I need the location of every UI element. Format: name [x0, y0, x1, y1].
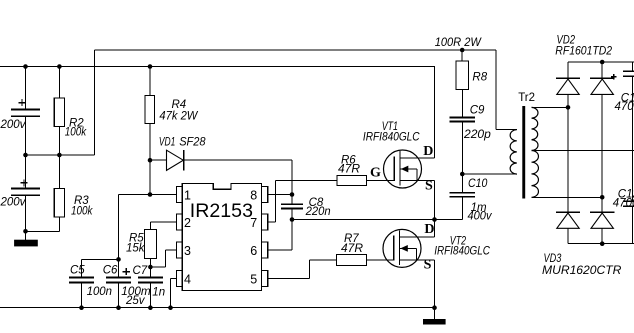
svg-text:VD1: VD1	[159, 137, 176, 149]
svg-text:S: S	[425, 178, 433, 193]
svg-text:C10: C10	[468, 178, 488, 190]
svg-text:200v: 200v	[0, 119, 27, 131]
svg-text:4700: 4700	[613, 198, 634, 210]
svg-text:R8: R8	[472, 71, 487, 83]
svg-text:MUR1620CTR: MUR1620CTR	[542, 265, 621, 277]
svg-text:2: 2	[184, 216, 191, 230]
svg-text:400v: 400v	[468, 211, 493, 223]
svg-text:3: 3	[184, 244, 191, 258]
svg-text:1: 1	[184, 189, 191, 203]
svg-text:IRFI840GLC: IRFI840GLC	[434, 246, 490, 258]
svg-text:R4: R4	[172, 99, 187, 111]
svg-text:IRFI840GLC: IRFI840GLC	[363, 132, 420, 144]
svg-text:D: D	[423, 144, 433, 159]
svg-text:15k: 15k	[126, 243, 146, 255]
svg-text:6: 6	[250, 244, 257, 258]
svg-text:C7: C7	[133, 265, 148, 277]
svg-text:5: 5	[250, 273, 257, 287]
svg-text:200v: 200v	[0, 197, 27, 209]
svg-text:C6: C6	[103, 264, 118, 276]
svg-text:47k 2W: 47k 2W	[159, 111, 198, 123]
svg-text:C9: C9	[470, 104, 485, 116]
svg-text:1n: 1n	[152, 286, 165, 298]
svg-text:Tr2: Tr2	[518, 92, 535, 104]
svg-text:100k: 100k	[65, 127, 87, 139]
svg-text:25v: 25v	[125, 295, 146, 307]
svg-text:47R: 47R	[341, 243, 363, 255]
svg-text:C5: C5	[70, 264, 85, 276]
svg-text:100k: 100k	[71, 206, 93, 218]
svg-text:100n: 100n	[87, 286, 112, 298]
svg-text:SF28: SF28	[179, 137, 206, 149]
svg-text:VD3: VD3	[544, 253, 562, 265]
svg-text:4: 4	[184, 273, 191, 287]
svg-text:G: G	[370, 166, 381, 181]
svg-text:IR2153: IR2153	[190, 201, 253, 222]
svg-text:100R 2W: 100R 2W	[435, 37, 482, 49]
svg-text:8: 8	[250, 189, 257, 203]
svg-text:S: S	[424, 257, 432, 272]
svg-text:7: 7	[250, 216, 257, 230]
svg-text:220n: 220n	[305, 206, 331, 218]
svg-text:RF1601TD2: RF1601TD2	[555, 46, 612, 58]
svg-text:4700: 4700	[615, 101, 634, 113]
svg-text:220p: 220p	[463, 129, 491, 141]
svg-text:47R: 47R	[338, 164, 360, 176]
svg-text:D: D	[424, 222, 434, 237]
